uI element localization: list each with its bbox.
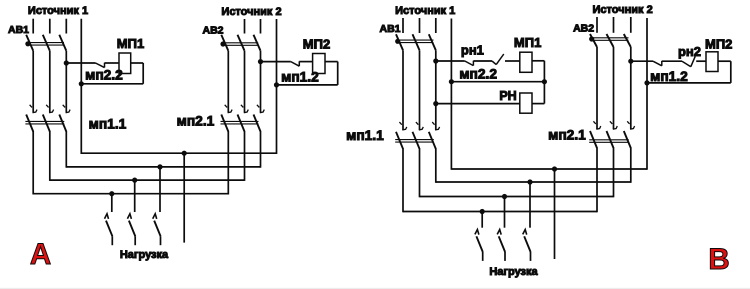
svg-text:АВ1: АВ1: [379, 23, 400, 35]
svg-text:РН: РН: [499, 89, 516, 103]
svg-text:А: А: [30, 238, 51, 271]
svg-text:В: В: [708, 243, 729, 276]
svg-text:Нагрузка: Нагрузка: [489, 266, 538, 278]
svg-text:мп2.2: мп2.2: [85, 68, 123, 83]
svg-text:Источник 1: Источник 1: [395, 5, 455, 17]
svg-text:Источник 2: Источник 2: [221, 6, 281, 18]
svg-text:мп2.2: мп2.2: [459, 66, 497, 81]
svg-text:Источник 2: Источник 2: [593, 4, 653, 16]
svg-text:МП2: МП2: [303, 37, 330, 52]
svg-text:МП1: МП1: [514, 35, 541, 50]
svg-text:мп2.1: мп2.1: [177, 113, 215, 128]
svg-text:рн2: рн2: [678, 44, 701, 59]
svg-text:Нагрузка: Нагрузка: [120, 249, 169, 261]
svg-text:мп2.1: мп2.1: [548, 128, 586, 143]
svg-text:МП1: МП1: [117, 36, 144, 51]
svg-text:АВ2: АВ2: [573, 23, 594, 35]
svg-text:рн1: рн1: [461, 43, 484, 58]
svg-text:Источник 1: Источник 1: [28, 5, 88, 17]
svg-text:мп1.2: мп1.2: [281, 70, 319, 85]
svg-text:мп1.1: мп1.1: [346, 128, 384, 143]
svg-text:мп1.1: мп1.1: [89, 117, 127, 132]
svg-text:МП2: МП2: [705, 36, 732, 51]
svg-text:мп1.2: мп1.2: [650, 69, 688, 84]
svg-text:АВ2: АВ2: [202, 25, 223, 37]
svg-text:АВ1: АВ1: [8, 24, 29, 36]
